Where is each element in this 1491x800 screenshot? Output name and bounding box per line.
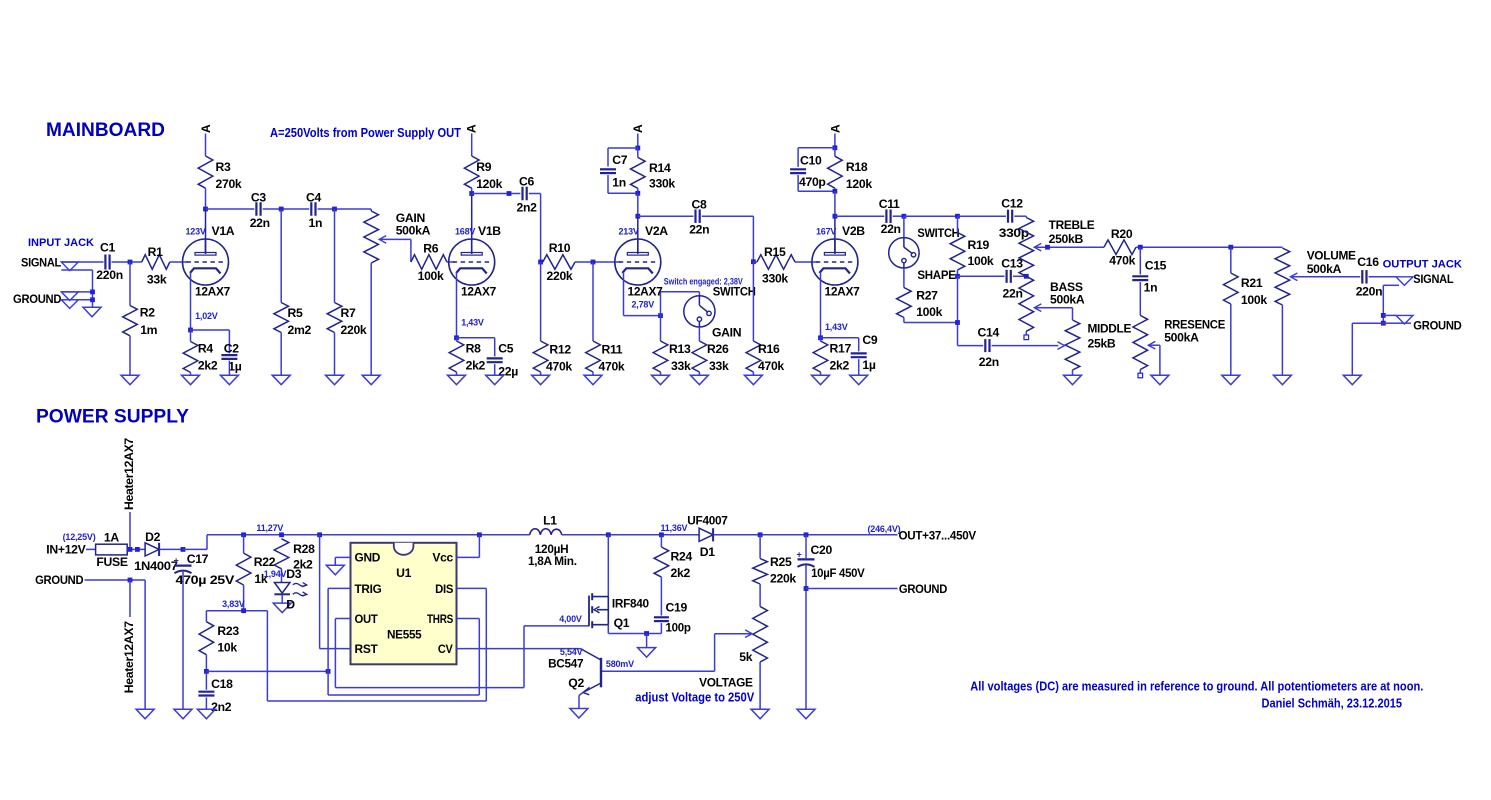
input jack ground contact 2 [61,300,78,309]
wire R2 to ground [129,336,131,375]
junction R19/C13 [955,274,960,279]
resistor R20 [1104,240,1136,255]
capacitor C4 [311,202,315,216]
svg-text:2n2: 2n2 [211,700,232,714]
svg-text:470k: 470k [546,360,572,374]
svg-text:120k: 120k [846,177,872,191]
svg-text:DIS: DIS [435,582,453,596]
junction rail/RST [317,532,322,537]
svg-text:IRF840: IRF840 [612,597,649,611]
terminal square BASS bottom [1024,331,1029,339]
svg-text:C17: C17 [187,552,209,566]
svg-text:33k: 33k [671,359,691,373]
svg-text:THRS: THRS [427,612,453,626]
wire R9 to plate node [471,188,473,193]
svg-text:33k: 33k [147,273,167,287]
svg-text:C11: C11 [879,197,900,211]
wire R10 to V2A grid [575,261,621,263]
wire source ground stem [646,634,648,648]
svg-text:(246,4V): (246,4V) [868,524,901,534]
wire C12 to treble pot [1014,215,1026,217]
resistor R26 [692,341,707,372]
svg-text:500kA: 500kA [1307,262,1342,276]
wire Q1 source [607,625,609,634]
svg-text:2m2: 2m2 [288,323,312,337]
inductor L1 120uH [530,529,562,535]
wire node to treble rail [904,215,958,217]
svg-text:R9: R9 [476,160,492,174]
svg-text:C7: C7 [612,153,628,167]
wire Q2 emitter to ground [579,693,583,696]
transistor Q2 BC547 [581,649,602,695]
svg-text:RRESENCE: RRESENCE [1164,318,1225,332]
wire node to plate junction [834,191,836,216]
svg-text:Daniel Schmäh, 23.12.2015: Daniel Schmäh, 23.12.2015 [1262,696,1403,710]
wire A to node [637,134,639,149]
svg-text:OUT+37...450V: OUT+37...450V [899,529,978,543]
ground R26 [690,375,708,385]
svg-text:NE555: NE555 [387,628,422,642]
resistor R3 [198,156,213,188]
wire R1 to V1A grid [170,261,188,263]
svg-text:25kB: 25kB [1088,337,1116,351]
capacitor C17 470u 25V [174,556,192,574]
wire C18 lead [205,671,207,689]
wire R11 top lead [592,262,594,341]
triode V1B [449,239,495,286]
svg-text:C8: C8 [692,198,708,212]
svg-text:V2A: V2A [645,224,668,238]
wire C1 to node [112,261,142,263]
wire R27 to shape node [903,318,905,323]
wire output ground contacts [1383,314,1396,316]
svg-text:R24: R24 [671,550,693,564]
wire C17 to ground [182,571,184,709]
junction rail/R28 [279,532,284,537]
svg-text:C15: C15 [1145,259,1167,273]
svg-text:1,43V: 1,43V [825,322,848,332]
svg-text:120k: 120k [476,177,502,191]
svg-text:167V: 167V [816,227,836,237]
capacitor C13 [1007,270,1011,283]
svg-text:V1A: V1A [212,224,235,238]
wire R3 to plate node [205,188,207,209]
capacitor C3 [256,202,260,216]
svg-text:470p: 470p [799,175,826,189]
wire R25 to pot [759,584,761,607]
wire plate lead V2A [637,216,639,254]
svg-text:R7: R7 [341,306,357,320]
svg-text:GROUND: GROUND [1413,319,1462,333]
wire S2 to R27 [903,268,905,288]
potentiometer VOLUME 500kA [1275,248,1290,305]
svg-text:12AX7: 12AX7 [825,285,861,299]
wire node to C3 [206,208,255,210]
wire volume wiper to C16 [1290,276,1360,278]
wire R18 leads [834,148,836,156]
potentiometer BASS 500kA [1019,276,1034,331]
resistor R11 [586,341,601,372]
svg-text:R5: R5 [288,306,304,320]
wire shape riser [957,276,959,345]
wire fuse to D2 [127,548,145,550]
svg-text:470k: 470k [1109,254,1135,268]
svg-text:R17: R17 [830,341,852,355]
wire S2 lead [903,216,905,237]
svg-text:R3: R3 [216,160,232,174]
svg-text:+: + [797,549,802,559]
ic U1 NE555 body [351,543,457,665]
svg-text:R6: R6 [423,241,439,255]
svg-text:R25: R25 [770,555,792,569]
svg-text:12AX7: 12AX7 [628,285,664,299]
svg-text:22n: 22n [689,223,709,237]
svg-text:R16: R16 [758,342,780,356]
svg-text:220n: 220n [96,268,123,282]
svg-text:MIDDLE: MIDDLE [1088,322,1132,336]
wire R11 to ground [592,372,594,375]
wire heater top lead [129,512,131,549]
wire R4 to ground [190,372,192,375]
svg-text:SWITCH: SWITCH [917,226,959,240]
svg-text:SIGNAL: SIGNAL [21,256,62,270]
junction rail/R24 [659,532,664,537]
svg-text:10µF 450V: 10µF 450V [811,566,865,580]
wire in to fuse [86,548,96,550]
wire C6 to R10 [529,193,541,195]
junction R22/R23 node [241,608,246,613]
wire R23 top lead [205,611,207,622]
junction treble wiper stub [1045,245,1050,250]
svg-text:R23: R23 [217,624,239,638]
junction output jack a [1381,313,1386,318]
junction C6/R10/R12 [538,260,543,265]
junction stub before C6 [507,191,512,196]
wire treble wiper to R20 [1034,246,1104,248]
output jack signal contact [1396,277,1413,286]
svg-text:500kA: 500kA [1164,331,1199,345]
wire R13 to ground [660,372,662,375]
wire bass wiper to middle pot [1034,307,1072,309]
svg-text:C14: C14 [978,325,1000,339]
capacitor C9 [851,353,867,357]
svg-text:1A: 1A [104,531,119,545]
junction node C1/R1/R2 [128,260,133,265]
svg-text:D2: D2 [145,530,161,544]
resistor R10 [543,255,575,270]
ground VOLUME pot [1273,375,1291,385]
svg-text:270k: 270k [216,177,242,191]
svg-text:IN+12V: IN+12V [46,543,86,557]
svg-text:R11: R11 [602,343,623,357]
potentiometer VOLTAGE 5k [753,607,768,663]
ground R2 [121,375,139,385]
wire GND pin to ground [335,556,350,558]
svg-text:R14: R14 [649,161,671,175]
ground C9 [850,375,868,385]
resistor R21 [1224,273,1239,304]
junction C7/R14 bottom [635,191,640,196]
svg-text:R19: R19 [968,238,990,252]
svg-text:INPUT JACK: INPUT JACK [28,237,94,249]
resistor R9 [464,156,479,188]
junction D2/C17/rail [181,547,186,552]
svg-text:3,83V: 3,83V [222,599,245,609]
potentiometer GAIN 500kA [364,211,379,263]
wire V1A cathode [190,272,192,330]
wire R16 top lead [752,262,754,341]
svg-text:33k: 33k [709,359,729,373]
wire presence wiper to ground [1148,344,1160,346]
input jack ground contact 1 [61,292,78,301]
svg-text:220n: 220n [1356,285,1383,299]
ground Q2 emitter [570,709,588,719]
wire C11 to switch node [893,215,904,217]
input jack signal contact [61,262,78,271]
wire GAIN wiper to R6 [379,238,411,240]
svg-text:220k: 220k [547,269,573,283]
wire A to R3 [205,134,207,157]
capacitor C5 [487,358,503,362]
wire C8 to R15 [702,215,754,217]
junction R10/R11 [591,260,596,265]
ground R7 [326,375,344,385]
wire A to node [834,134,836,148]
ground C20 [797,709,815,719]
junction V2B cathode/R17/C9 [818,335,823,340]
resistor R2 [123,306,138,336]
wire rail D1 to OUT [713,534,897,536]
ground C2 [220,375,238,385]
capacitor C10 [790,169,806,173]
junction rail/R25 [758,532,763,537]
resistor R19 [950,233,965,271]
wire R14 leads [637,148,639,157]
svg-text:580mV: 580mV [606,659,634,669]
wire rail L1 to D1 [562,534,699,536]
svg-text:330k: 330k [762,272,788,286]
svg-text:100k: 100k [916,305,942,319]
svg-text:SWITCH: SWITCH [713,284,756,298]
svg-text:R22: R22 [254,555,276,569]
wire jack ground to gnd [61,291,92,293]
wiper RRESENCE [1148,341,1155,349]
svg-text:C20: C20 [811,543,833,557]
junction C11/S2 [902,214,907,219]
wire cathode to C2 [191,329,230,331]
svg-text:R28: R28 [293,542,315,556]
wire trig net horizontal [206,670,328,672]
wire R12 top lead [540,262,542,341]
svg-text:POWER SUPPLY: POWER SUPPLY [36,407,189,428]
wire C19 to source line [660,623,662,634]
wire A to R9 [471,134,473,157]
wire D2 to C17 node [160,548,183,550]
svg-text:11,27V: 11,27V [256,523,283,533]
wire cathode to R8 [456,338,458,341]
junction rail/R19 [955,214,960,219]
svg-text:D: D [286,598,295,612]
svg-text:Q2: Q2 [568,676,584,690]
svg-text:168V: 168V [455,227,475,237]
svg-text:330p: 330p [999,226,1029,240]
svg-text:22n: 22n [979,355,999,369]
wire node to switch [661,291,700,293]
svg-text:V2B: V2B [842,224,865,238]
svg-text:D3: D3 [286,567,302,581]
resistor R14 [631,157,646,188]
wire GAIN pot to ground [370,263,372,375]
svg-text:GAIN: GAIN [712,326,741,340]
wire signal to C1 [61,261,103,263]
svg-text:R8: R8 [466,341,482,355]
capacitor C18 [198,692,214,696]
svg-text:FUSE: FUSE [96,555,127,569]
junction C3/C4/R5 [279,207,284,212]
ground R8 [448,375,466,385]
resistor R17 [813,341,828,372]
svg-text:100p: 100p [666,621,691,635]
svg-text:1µ: 1µ [862,358,875,372]
junction R9/C6/plate [469,191,474,196]
capacitor C1 [105,255,109,270]
svg-text:C6: C6 [519,175,535,189]
ground RRESENCE wiper [1151,375,1169,385]
svg-text:OUTPUT JACK: OUTPUT JACK [1383,259,1462,271]
capacitor C6 [523,187,527,201]
svg-text:12AX7: 12AX7 [461,285,497,299]
svg-text:220k: 220k [770,572,796,586]
svg-text:1,02V: 1,02V [195,311,218,321]
wire rail to C12 [958,215,1006,217]
svg-text:2k2: 2k2 [466,359,486,373]
svg-text:5,54V: 5,54V [560,647,583,657]
svg-text:C5: C5 [498,341,514,355]
svg-text:2n2: 2n2 [517,201,538,215]
wire CV to Q2 collector [457,648,581,650]
junction shape/R27 return [955,320,960,325]
junction output jack b [1381,321,1386,326]
wire node to plate junction [637,193,639,216]
svg-text:A=250Volts from Power Supply O: A=250Volts from Power Supply OUT [270,126,461,140]
wire THRS pin [457,618,480,620]
potentiometer MIDDLE 25kB [1065,320,1080,370]
svg-text:123V: 123V [186,227,206,237]
wire R24 top lead [660,535,662,547]
junction rail/Q1 drain [606,532,611,537]
wire V2A cathode [623,272,625,316]
junction input jack a [90,290,95,295]
resistor R22 1k [236,553,251,585]
svg-text:1,94V: 1,94V [264,569,287,579]
junction treble/bass/C13 [1024,274,1029,279]
svg-text:U1: U1 [396,566,412,580]
svg-text:4,00V: 4,00V [559,614,582,624]
resistor R13 [653,341,668,372]
ground C18 [197,709,215,719]
svg-text:C18: C18 [211,677,233,691]
resistor R16 [746,341,761,372]
capacitor C19 [654,617,669,621]
wire wiper to Q2 base [715,633,753,635]
wire R24 to C19 [660,577,662,615]
svg-text:GND: GND [355,551,381,565]
svg-text:100k: 100k [968,254,994,268]
wire R7 top lead [334,209,336,303]
junction V2A cathode node [658,313,663,318]
wire cathode to R17 [820,338,822,341]
ground VOLTAGE pot [751,709,769,719]
wire shape rail to C13 [958,275,1005,277]
resistor R1 [142,255,170,270]
capacitor C8 [696,209,700,223]
wire R16 to ground [752,372,754,375]
svg-text:OUT: OUT [355,612,379,626]
junction A/C7/R14 [635,146,640,151]
triode V1A [183,239,229,286]
resistor R4 [183,342,198,373]
wire node to C6 [472,193,521,195]
resistor R15 [757,255,795,270]
svg-text:C12: C12 [1001,197,1023,211]
svg-text:2k2: 2k2 [671,566,691,580]
wiper BASS [1034,304,1041,312]
wire D3 to ground [281,594,283,603]
svg-text:GROUND: GROUND [13,292,62,306]
svg-text:2k2: 2k2 [198,359,218,373]
ground R13 [652,375,670,385]
wire C5 to ground [494,364,496,375]
wire C7 to node [607,175,609,193]
ground U1 GND [326,565,344,575]
junction heater/in a [128,547,133,552]
svg-text:+: + [174,556,179,566]
wire R5 to ground [280,333,282,376]
junction rail/R22 [241,532,246,537]
ground output jack [1343,375,1361,385]
wire to C7 [608,147,638,149]
svg-text:C4: C4 [306,191,322,205]
wire C13 to bass pot [1013,275,1026,277]
wire output sleeve [1383,284,1399,286]
svg-text:L1: L1 [543,514,557,528]
svg-text:R15: R15 [764,245,786,259]
svg-text:11,36V: 11,36V [661,523,688,533]
svg-text:GROUND: GROUND [35,573,84,587]
svg-text:R20: R20 [1111,227,1133,241]
output jack ground contact 2 [1396,322,1411,324]
wire node to C11 [835,215,884,217]
ground Q1 source [638,648,656,658]
svg-text:R21: R21 [1241,276,1263,290]
ground MIDDLE pot [1064,375,1082,385]
wire R23 to C18 node [205,655,207,672]
switch GAIN (S1) [684,296,715,327]
wire R6 to V1B grid [447,261,455,263]
ground D3 [273,603,291,613]
svg-text:D1: D1 [700,545,716,559]
wiper GAIN pot [379,236,386,244]
wire cathode to C5 [457,337,495,339]
wire middle pot to ground [1072,370,1074,375]
ground GAIN pot [362,375,380,385]
wire R19 leads [957,216,959,232]
svg-text:CV: CV [438,642,454,656]
svg-text:R13: R13 [669,342,691,356]
svg-text:A: A [631,124,645,133]
capacitor C16 [1362,270,1366,284]
svg-text:All voltages (DC) are measured: All voltages (DC) are measured in refere… [970,679,1423,693]
